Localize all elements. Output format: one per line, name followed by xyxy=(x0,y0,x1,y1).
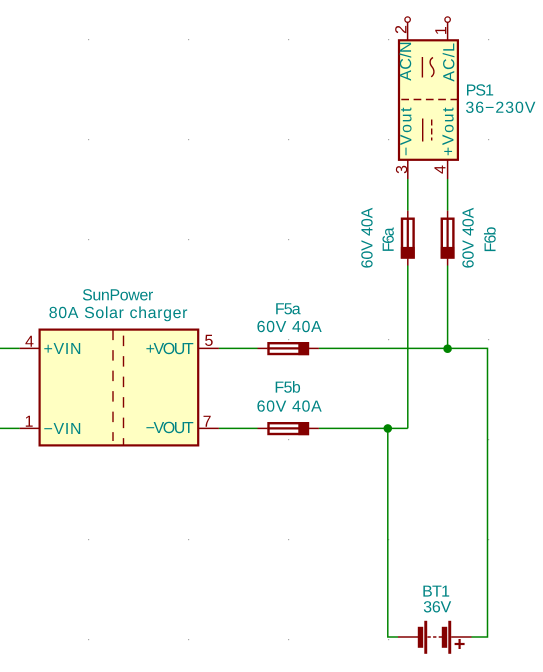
charger pin 4 +VIN xyxy=(20,336,80,354)
battery BT1 xyxy=(398,621,472,654)
charger pin 5 +VOUT xyxy=(146,335,219,354)
fuse F6b xyxy=(441,211,455,266)
wire F5a to corner and down to battery plus xyxy=(319,348,488,637)
charger label SunPower xyxy=(83,289,153,300)
label F5b 60V 40A xyxy=(257,400,321,411)
wire -VOUT to F5b xyxy=(219,427,258,429)
label F6a xyxy=(382,227,393,251)
charger pin 1 -VIN xyxy=(20,416,80,434)
wire +VOUT to F5a xyxy=(219,347,258,349)
PS1 DC symbol xyxy=(423,119,432,142)
wire F6a down to -VOUT net xyxy=(407,266,409,429)
power supply PS1 body xyxy=(399,40,458,160)
wire +VIN left xyxy=(0,347,20,349)
fuse F5b xyxy=(258,422,319,435)
label PS1 xyxy=(467,84,493,95)
charger label 80A Solar charger xyxy=(49,306,187,321)
charger pin 7 -VOUT xyxy=(146,416,219,433)
label 36-230V xyxy=(466,102,535,113)
wire PS1 pin3 to F6a xyxy=(407,179,409,211)
label 36V xyxy=(424,601,451,612)
PS1 pin 4 +Vout xyxy=(434,108,453,179)
junction +VOUT net xyxy=(443,344,452,353)
wire -VIN left xyxy=(0,427,20,429)
PS1 pin 3 -Vout xyxy=(396,108,412,179)
label F6b 60V 40A xyxy=(462,208,473,268)
junction -VOUT net xyxy=(384,424,393,433)
fuse F6a xyxy=(401,211,415,266)
wire junction down to battery minus xyxy=(388,428,398,637)
wire F5b to F6a column xyxy=(319,427,408,429)
label F6b xyxy=(484,227,496,251)
PS1 pin 1 AC/L xyxy=(435,17,454,82)
label F5a 60V 40A xyxy=(257,321,321,332)
charger U1 body xyxy=(40,330,199,447)
wire F6b down to +VOUT net xyxy=(447,266,449,349)
label F5b xyxy=(276,381,300,393)
PS1 pin 2 AC/N xyxy=(395,17,411,81)
fuse F5a xyxy=(258,342,319,355)
label F6a 60V 40A xyxy=(361,208,372,268)
label BT1 xyxy=(423,586,449,597)
wire PS1 pin4 to F6b xyxy=(447,179,449,211)
label F5a xyxy=(276,303,300,314)
PS1 AC symbol xyxy=(422,57,434,78)
